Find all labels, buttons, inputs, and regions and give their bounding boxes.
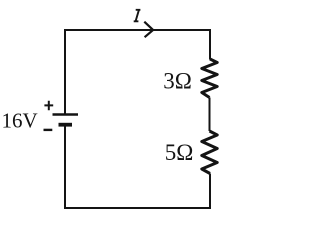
battery plus sign (44, 101, 53, 110)
resistor R1 zigzag (202, 59, 217, 98)
wire left upper (64, 29, 66, 115)
battery V1 short plate (59, 123, 73, 127)
wire bottom (64, 207, 211, 209)
resistor R2 zigzag (202, 131, 217, 174)
current arrow on top wire (144, 22, 153, 38)
wire left lower (64, 125, 66, 210)
wire right upper (209, 29, 211, 60)
svg-text:16V: 16V (2, 109, 38, 133)
battery V1 long plate (53, 113, 79, 116)
wire right lower (209, 174, 211, 210)
svg-text:3Ω: 3Ω (163, 69, 192, 94)
svg-text:5Ω: 5Ω (165, 140, 194, 165)
wire top (65, 29, 210, 31)
wire right middle (209, 98, 211, 132)
label I (current) (134, 10, 141, 21)
battery minus sign (44, 129, 53, 131)
